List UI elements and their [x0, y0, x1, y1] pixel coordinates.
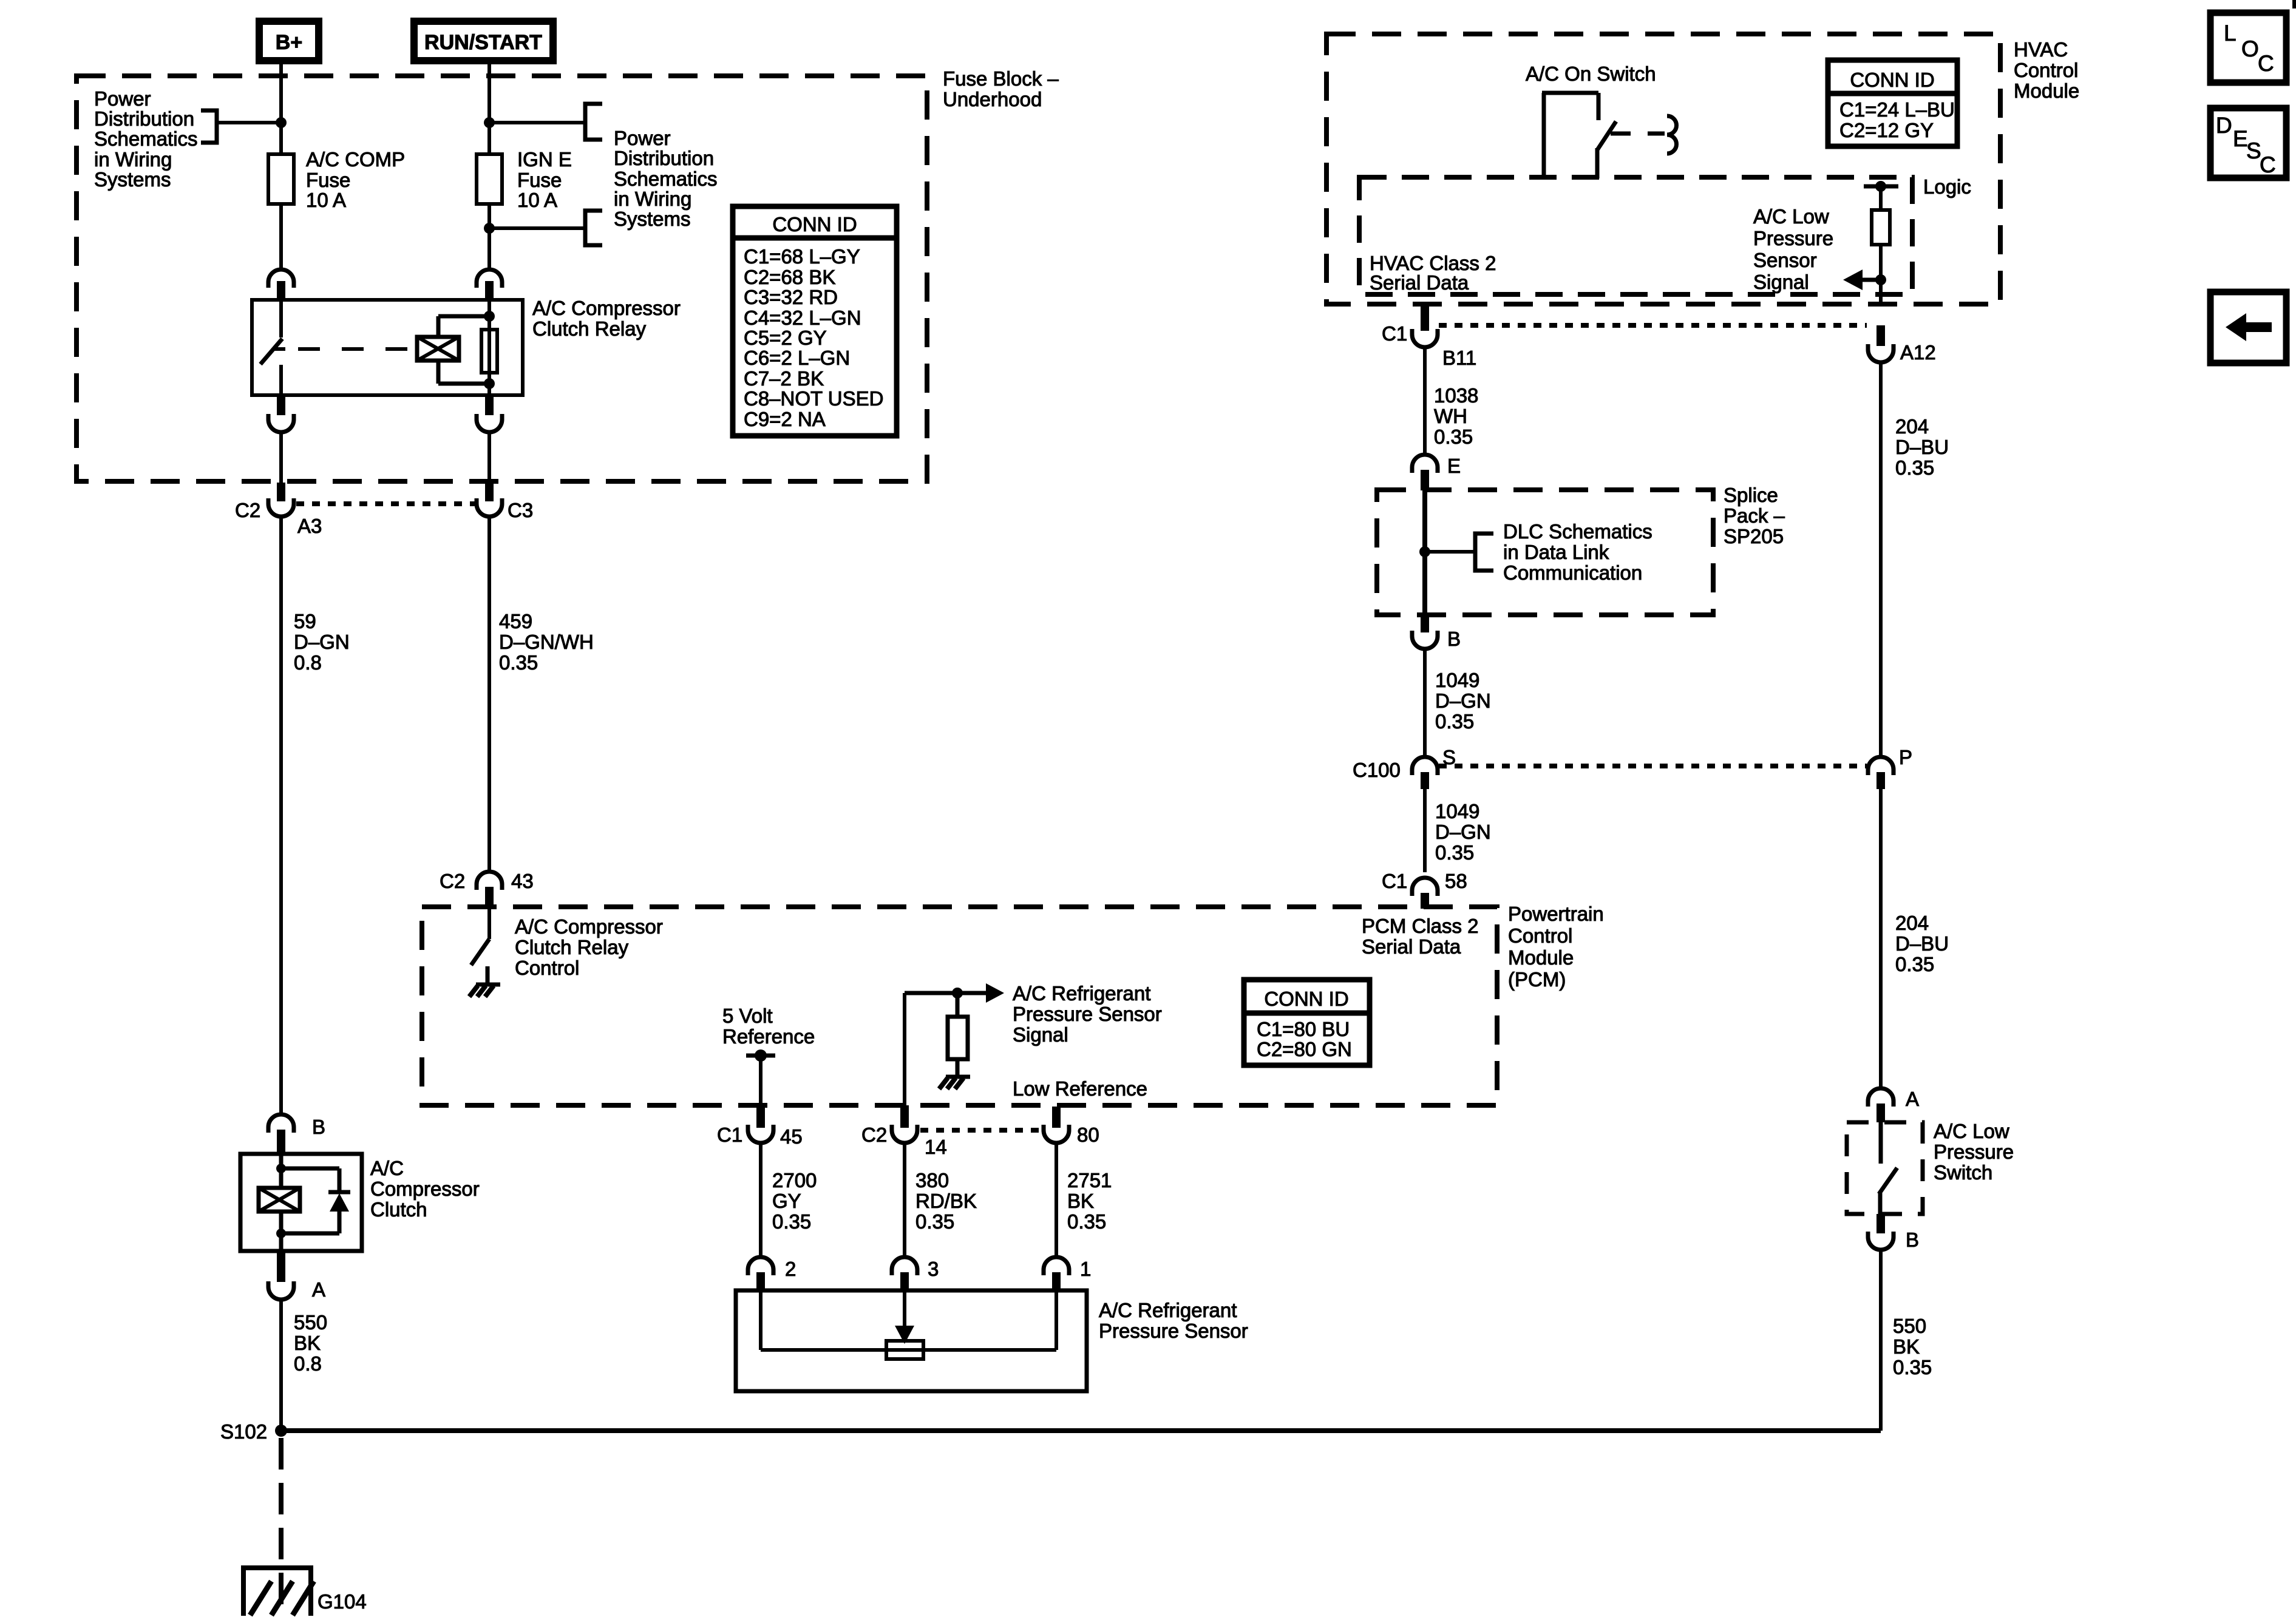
svg-text:Signal: Signal: [1013, 1023, 1068, 1046]
svg-text:Fuse: Fuse: [306, 169, 350, 191]
wire relay 87 down to C2 A3: [279, 433, 283, 484]
svg-text:2751: 2751: [1067, 1169, 1112, 1192]
svg-text:C2=68 BK: C2=68 BK: [744, 266, 835, 288]
svg-text:(PCM): (PCM): [1508, 968, 1566, 991]
svg-text:SP205: SP205: [1724, 525, 1784, 547]
connector bowl C1 45: [748, 1125, 773, 1143]
svg-text:D–GN/WH: D–GN/WH: [499, 631, 594, 653]
pin stub sensor 2: [756, 1272, 765, 1290]
label wire 59 D-GN 0.8: [294, 610, 350, 674]
pin stub A3: [277, 483, 285, 501]
svg-text:2: 2: [785, 1258, 796, 1280]
A/C compressor clutch relay control switch inside PCM: [471, 907, 489, 965]
wire 2700 GY: [759, 1145, 763, 1258]
svg-text:L: L: [2224, 21, 2237, 46]
label A/C Compressor Clutch Relay: [532, 297, 681, 340]
wire B+ feed down: [279, 64, 283, 154]
svg-text:A: A: [312, 1278, 325, 1301]
connector cap sensor pin 3: [892, 1257, 917, 1275]
svg-text:Clutch Relay: Clutch Relay: [515, 936, 629, 958]
ground symbol inside PCM (signal pull): [939, 1077, 970, 1089]
svg-text:Low Reference: Low Reference: [1013, 1077, 1147, 1100]
signal direction arrow into logic: [1843, 269, 1886, 290]
wire 59 D-GN down: [279, 518, 283, 1115]
connector bowl C2 A3: [268, 498, 294, 517]
svg-text:C: C: [2260, 152, 2276, 177]
label wire 2700 GY 0.35: [772, 1169, 817, 1233]
svg-text:A/C Compressor: A/C Compressor: [532, 297, 681, 319]
pin stub splice E: [1421, 470, 1429, 490]
node junction on B+ branch: [276, 117, 287, 128]
dotted harness line A3 to C3: [296, 501, 475, 506]
svg-text:D: D: [2216, 113, 2232, 138]
svg-text:0.35: 0.35: [915, 1210, 954, 1233]
svg-text:C2: C2: [440, 870, 465, 892]
svg-text:204: 204: [1895, 415, 1929, 438]
svg-text:A/C: A/C: [370, 1157, 404, 1179]
svg-text:Control: Control: [515, 957, 579, 979]
relay K box A/C Compressor Clutch Relay: [252, 300, 523, 395]
svg-text:in Wiring: in Wiring: [614, 188, 691, 210]
dashed ground lead to G104: [279, 1438, 284, 1616]
pin stub splice B: [1421, 615, 1429, 632]
svg-text:G104: G104: [318, 1590, 367, 1613]
PCM internal pull resistor on signal: [948, 993, 968, 1076]
svg-text:S102: S102: [220, 1420, 267, 1443]
svg-text:C3: C3: [508, 499, 533, 521]
ground G104 symbol: [243, 1565, 314, 1616]
svg-text:B: B: [312, 1116, 325, 1138]
connector cap LP switch A: [1868, 1088, 1894, 1107]
page corner mark: [2292, 0, 2296, 8]
LP switch contact: [1879, 1122, 1897, 1214]
svg-text:Power: Power: [94, 87, 151, 110]
svg-text:C2: C2: [235, 499, 260, 521]
pin stub sensor 3: [900, 1272, 909, 1290]
svg-text:BK: BK: [1067, 1190, 1094, 1212]
svg-text:A12: A12: [1900, 341, 1936, 364]
svg-text:Fuse Block –: Fuse Block –: [943, 67, 1059, 90]
connector cap C1 58: [1412, 878, 1438, 896]
svg-text:Switch: Switch: [1934, 1161, 1992, 1184]
wire fuse to relay connector: [279, 204, 283, 270]
svg-text:A: A: [1906, 1088, 1919, 1110]
connector bowl C1 B11: [1412, 329, 1438, 347]
svg-text:CONN ID: CONN ID: [772, 213, 857, 236]
connector cap sensor pin 2: [748, 1257, 773, 1275]
wire relay right through resistor: [487, 300, 491, 395]
svg-text:A3: A3: [297, 515, 322, 537]
connector cap relay pin 86: [477, 269, 502, 288]
label Fuse Block - Underhood: [943, 67, 1059, 110]
svg-text:D–BU: D–BU: [1895, 932, 1949, 955]
label A/C Low Pressure Switch: [1934, 1120, 2014, 1184]
connector bowl A12: [1868, 344, 1894, 362]
svg-text:in Data Link: in Data Link: [1503, 541, 1609, 563]
label wire 1049 D-GN 0.35 lower: [1435, 800, 1491, 864]
pin stub relay 86: [485, 281, 494, 300]
svg-text:D–GN: D–GN: [1435, 690, 1491, 712]
pin stub clutch A: [277, 1251, 285, 1282]
svg-text:5 Volt: 5 Volt: [722, 1005, 773, 1027]
svg-text:D–GN: D–GN: [294, 631, 350, 653]
power feed B+ box: [259, 21, 319, 61]
splice S102: [220, 1420, 287, 1443]
svg-text:C3=32 RD: C3=32 RD: [744, 286, 838, 308]
DESC legend box: [2210, 108, 2286, 178]
svg-text:204: 204: [1895, 912, 1929, 934]
connector bowl clutch A: [268, 1281, 294, 1300]
svg-text:A/C Low: A/C Low: [1753, 205, 1829, 228]
label wire 459 D-GN/WH 0.35: [499, 610, 594, 674]
svg-text:Signal: Signal: [1753, 271, 1809, 293]
node junction RUN branch upper: [484, 117, 495, 128]
label A/C Compressor Clutch Relay Control: [515, 915, 663, 979]
label A/C Refrigerant Pressure Sensor Signal: [1013, 982, 1162, 1046]
svg-text:D–GN: D–GN: [1435, 821, 1491, 843]
bracket power distribution right lower: [585, 211, 602, 245]
label wire 2751 BK 0.35: [1067, 1169, 1112, 1233]
pin stub C1 45: [756, 1105, 765, 1128]
connector cap splice E: [1412, 455, 1438, 473]
relay resistor: [481, 330, 497, 373]
svg-text:Fuse: Fuse: [517, 169, 562, 191]
clutch coil box with X: [259, 1188, 300, 1212]
svg-text:IGN E: IGN E: [517, 148, 572, 171]
svg-text:A/C Low: A/C Low: [1934, 1120, 2009, 1142]
svg-text:0.35: 0.35: [1435, 841, 1474, 864]
svg-text:Pack –: Pack –: [1724, 504, 1785, 527]
svg-text:Serial Data: Serial Data: [1370, 271, 1469, 294]
svg-text:C5=2 GY: C5=2 GY: [744, 327, 827, 349]
label wire 1049 D-GN 0.35 upper: [1435, 669, 1491, 733]
HVAC CONN ID table: [1828, 60, 1957, 146]
ground symbol inside PCM (relay control): [469, 966, 500, 997]
svg-text:C9=2 NA: C9=2 NA: [744, 408, 826, 430]
svg-text:Module: Module: [1508, 946, 1574, 969]
bracket DLC schematics: [1475, 534, 1493, 571]
svg-text:C1=80 BU: C1=80 BU: [1257, 1018, 1350, 1040]
svg-text:Schematics: Schematics: [94, 127, 198, 150]
fuse IGN E 10A: [477, 148, 572, 211]
connector bowl C2 14: [892, 1125, 917, 1143]
svg-text:Systems: Systems: [614, 208, 691, 230]
svg-text:459: 459: [499, 610, 532, 632]
wire relay 85 down to C3: [487, 433, 491, 484]
svg-text:43: 43: [511, 870, 534, 892]
svg-text:RD/BK: RD/BK: [915, 1190, 977, 1212]
sensor resistor element: [886, 1341, 923, 1359]
svg-text:C1: C1: [717, 1124, 742, 1146]
svg-text:Pressure Sensor: Pressure Sensor: [1099, 1320, 1248, 1342]
svg-text:CONN ID: CONN ID: [1264, 988, 1348, 1010]
svg-text:Pressure Sensor: Pressure Sensor: [1013, 1003, 1162, 1025]
pin stub relay 30: [277, 281, 285, 300]
svg-text:0.35: 0.35: [1067, 1210, 1106, 1233]
label A/C Compressor Clutch: [370, 1157, 480, 1221]
relay mechanical link dashed: [298, 347, 417, 351]
svg-text:BK: BK: [1893, 1335, 1920, 1358]
svg-text:Communication: Communication: [1503, 561, 1642, 584]
svg-text:2700: 2700: [772, 1169, 817, 1192]
PCM dashed box Powertrain Control Module: [422, 907, 1497, 1105]
node coil rail top: [484, 311, 495, 322]
svg-text:C2: C2: [861, 1124, 887, 1146]
text power distribution right: [614, 127, 718, 230]
svg-text:C1: C1: [1382, 322, 1407, 345]
connector bowl LP switch B: [1868, 1232, 1894, 1250]
svg-text:D–BU: D–BU: [1895, 436, 1949, 458]
pin stub LP switch B: [1877, 1214, 1885, 1233]
svg-text:A/C Refrigerant: A/C Refrigerant: [1099, 1299, 1237, 1321]
svg-text:Powertrain: Powertrain: [1508, 903, 1604, 925]
svg-text:S: S: [2246, 138, 2261, 163]
pin stub HVAC C1 B11: [1421, 304, 1429, 331]
svg-text:0.35: 0.35: [1434, 425, 1473, 448]
wire 204 D-BU upper: [1879, 363, 1883, 756]
wire to right bracket upper: [489, 121, 585, 124]
label wire 1038 WH 0.35: [1434, 384, 1478, 448]
dotted harness line S to P: [1439, 764, 1867, 768]
S102 ground bus wire: [281, 1428, 1881, 1433]
svg-text:Control: Control: [2014, 59, 2078, 81]
label A/C Refrigerant Pressure Sensor: [1099, 1299, 1248, 1342]
diode symbol: [328, 1192, 350, 1212]
signal branch junction and arrow inside PCM: [905, 983, 1004, 1003]
pin stub 43: [485, 887, 494, 909]
pin stub C100 S: [1421, 772, 1429, 789]
svg-text:Compressor: Compressor: [370, 1178, 480, 1200]
back arrow legend box: [2210, 292, 2286, 363]
pin stub C1 58: [1421, 893, 1429, 909]
wire 1049 D-GN upper: [1423, 651, 1427, 756]
svg-text:WH: WH: [1434, 405, 1467, 427]
svg-text:Serial Data: Serial Data: [1362, 935, 1461, 958]
wire IGN E fuse to relay connector: [487, 204, 491, 270]
HVAC control module dashed box: [1326, 34, 2000, 304]
wire signal down to C2 14: [903, 993, 906, 1105]
connector bowl relay 87: [268, 414, 294, 432]
pin stub C2 80: [1052, 1107, 1061, 1128]
svg-text:Pressure: Pressure: [1753, 227, 1833, 249]
connector bowl C2 80: [1044, 1125, 1069, 1143]
wire 380 RD/BK: [903, 1145, 906, 1258]
label wire 380 RD/BK 0.35: [915, 1169, 977, 1233]
logic node and pull resistor: [1864, 181, 1898, 304]
bracket power distribution schematics left: [201, 110, 217, 143]
HVAC logic dashed box: [1359, 177, 1912, 294]
wire 1038 WH: [1423, 349, 1427, 455]
text power distribution left: [94, 87, 198, 191]
svg-text:BK: BK: [294, 1332, 321, 1354]
connector bowl relay 85: [477, 414, 502, 432]
svg-text:RUN/START: RUN/START: [424, 31, 542, 54]
svg-text:C6=2 L–GN: C6=2 L–GN: [744, 347, 850, 369]
fuse block underhood dashed box: [76, 76, 927, 481]
svg-text:Module: Module: [2014, 80, 2079, 102]
svg-text:C8–NOT USED: C8–NOT USED: [744, 387, 883, 410]
bracket power distribution right upper: [585, 104, 602, 140]
wire 2751 BK: [1055, 1145, 1058, 1258]
sensor internal wiring: [761, 1290, 1056, 1350]
svg-text:GY: GY: [772, 1190, 801, 1212]
svg-text:C: C: [2258, 51, 2274, 76]
svg-text:Logic: Logic: [1923, 175, 1971, 198]
svg-text:B: B: [1447, 628, 1461, 650]
fuse A/C COMP 10A: [268, 148, 405, 211]
pin stub C100 P: [1877, 772, 1885, 789]
svg-text:1049: 1049: [1435, 669, 1479, 691]
pin stub C3: [485, 483, 494, 501]
relay switch contact: [260, 300, 285, 395]
wire 1049 D-GN lower: [1423, 789, 1427, 872]
connector cap sensor pin 1: [1044, 1257, 1069, 1275]
svg-text:Sensor: Sensor: [1753, 249, 1817, 271]
svg-text:CONN ID: CONN ID: [1850, 69, 1934, 91]
label wire 550 BK 0.35: [1893, 1315, 1932, 1378]
label Powertrain Control Module (PCM): [1508, 903, 1604, 991]
pin stub relay 85: [485, 395, 494, 415]
svg-text:10 A: 10 A: [517, 189, 557, 211]
svg-text:C4=32 L–GN: C4=32 L–GN: [744, 307, 861, 329]
svg-text:C7–2 BK: C7–2 BK: [744, 367, 824, 390]
svg-text:45: 45: [780, 1125, 803, 1148]
wire 550 BK 0.35 down to ground bus: [1879, 1252, 1883, 1431]
clutch coil wiring and diode branch: [276, 1154, 339, 1251]
svg-text:B: B: [1906, 1229, 1919, 1251]
svg-text:Power: Power: [614, 127, 671, 149]
svg-text:DLC Schematics: DLC Schematics: [1503, 520, 1652, 543]
svg-text:550: 550: [1893, 1315, 1926, 1337]
svg-text:550: 550: [294, 1311, 327, 1334]
svg-text:1038: 1038: [1434, 384, 1478, 407]
node coil rail bottom: [484, 378, 495, 389]
label DLC Schematics in Data Link Communication: [1503, 520, 1652, 584]
svg-text:in Wiring: in Wiring: [94, 148, 172, 171]
pin stub LP switch A: [1877, 1103, 1885, 1122]
svg-text:B+: B+: [276, 31, 302, 54]
label wire 204 D-BU 0.35 upper: [1895, 415, 1949, 479]
wire to left power distribution bracket: [217, 121, 281, 124]
wire to right bracket lower: [489, 226, 585, 230]
pin stub C2 14: [900, 1105, 909, 1128]
svg-text:380: 380: [915, 1169, 949, 1192]
svg-text:A/C Compressor: A/C Compressor: [515, 915, 663, 938]
svg-text:C1=68 L–GY: C1=68 L–GY: [744, 245, 860, 268]
connector cap C2 43: [477, 872, 502, 890]
svg-text:A/C On Switch: A/C On Switch: [1526, 63, 1656, 85]
svg-text:3: 3: [928, 1258, 939, 1280]
dotted harness line 14 to 80: [920, 1128, 1041, 1133]
A/C low pressure switch dashed box: [1847, 1122, 1923, 1214]
svg-text:O: O: [2241, 36, 2259, 61]
A/C Refrigerant Pressure Sensor box: [736, 1290, 1087, 1391]
svg-text:P: P: [1899, 746, 1912, 768]
svg-text:Clutch: Clutch: [370, 1198, 427, 1221]
label HVAC Control Module: [2014, 38, 2079, 102]
label wire 204 D-BU 0.35 lower: [1895, 912, 1949, 975]
wire RUN/START feed down: [487, 64, 491, 154]
relay coil rails: [438, 316, 489, 384]
svg-text:C100: C100: [1353, 759, 1401, 781]
svg-text:0.35: 0.35: [772, 1210, 811, 1233]
svg-text:A/C Refrigerant: A/C Refrigerant: [1013, 982, 1150, 1005]
svg-text:1049: 1049: [1435, 800, 1479, 822]
connector bowl splice B: [1412, 631, 1438, 649]
svg-text:14: 14: [925, 1136, 947, 1158]
connector bowl C3: [477, 498, 502, 517]
label wire 550 BK 0.8: [294, 1311, 327, 1375]
svg-text:80: 80: [1077, 1124, 1099, 1146]
svg-text:C1: C1: [1382, 870, 1407, 892]
svg-text:Systems: Systems: [94, 168, 171, 191]
connector cap relay pin 30: [268, 269, 294, 288]
A/C On Switch symbol: [1542, 93, 1677, 178]
wire 204 D-BU lower: [1879, 789, 1883, 1089]
label 5 Volt Reference: [722, 1005, 815, 1048]
svg-text:59: 59: [294, 610, 316, 632]
label A/C Low Pressure Sensor Signal: [1753, 205, 1833, 293]
5 volt reference rail: [746, 1049, 775, 1105]
svg-text:0.8: 0.8: [294, 1352, 322, 1375]
svg-text:Pressure: Pressure: [1934, 1141, 2014, 1163]
svg-text:0.35: 0.35: [1435, 710, 1474, 733]
svg-text:HVAC: HVAC: [2014, 38, 2068, 61]
wire 459 D-GN/WH down: [487, 518, 491, 872]
svg-text:0.8: 0.8: [294, 651, 322, 674]
label PCM Class 2 Serial Data: [1362, 915, 1479, 958]
svg-text:Clutch Relay: Clutch Relay: [532, 317, 647, 340]
dotted harness line B11 to A12: [1439, 323, 1867, 328]
svg-text:58: 58: [1445, 870, 1467, 892]
A/C Compressor Clutch box: [240, 1154, 362, 1251]
svg-text:0.35: 0.35: [1893, 1356, 1932, 1378]
pin stub HVAC A12: [1877, 325, 1885, 346]
svg-text:C2=12 GY: C2=12 GY: [1839, 119, 1934, 141]
connector cap C100 P: [1868, 757, 1894, 775]
svg-text:E: E: [2233, 126, 2248, 151]
LOC legend box: [2210, 13, 2286, 83]
relay coil box with X: [417, 337, 459, 361]
sensor wiper arrow: [895, 1290, 914, 1344]
pin stub sensor 1: [1052, 1272, 1061, 1290]
label HVAC Class 2 Serial Data: [1370, 252, 1496, 294]
svg-text:Underhood: Underhood: [943, 88, 1042, 110]
splice pack dashed box: [1377, 490, 1713, 615]
svg-text:0.35: 0.35: [499, 651, 538, 674]
label Splice Pack - SP205: [1724, 484, 1785, 547]
svg-text:C2=80 GN: C2=80 GN: [1257, 1038, 1352, 1060]
svg-text:Control: Control: [1508, 924, 1572, 947]
connector cap clutch B: [268, 1114, 294, 1133]
splice wire and node: [1419, 490, 1475, 615]
fuse block CONN ID table: [733, 206, 897, 436]
svg-text:1: 1: [1080, 1258, 1091, 1280]
svg-text:10 A: 10 A: [306, 189, 346, 211]
svg-text:Distribution: Distribution: [614, 147, 714, 169]
svg-text:0.35: 0.35: [1895, 456, 1934, 479]
wire 550 BK 0.8 down: [279, 1301, 283, 1431]
connector cap C100 S: [1412, 757, 1438, 775]
svg-text:E: E: [1447, 455, 1461, 477]
pin stub relay 87: [277, 395, 285, 415]
svg-text:Distribution: Distribution: [94, 107, 194, 130]
svg-text:Reference: Reference: [722, 1025, 815, 1048]
svg-text:A/C COMP: A/C COMP: [306, 148, 405, 171]
svg-text:Splice: Splice: [1724, 484, 1778, 506]
svg-text:PCM Class 2: PCM Class 2: [1362, 915, 1479, 937]
PCM CONN ID table: [1244, 980, 1370, 1065]
